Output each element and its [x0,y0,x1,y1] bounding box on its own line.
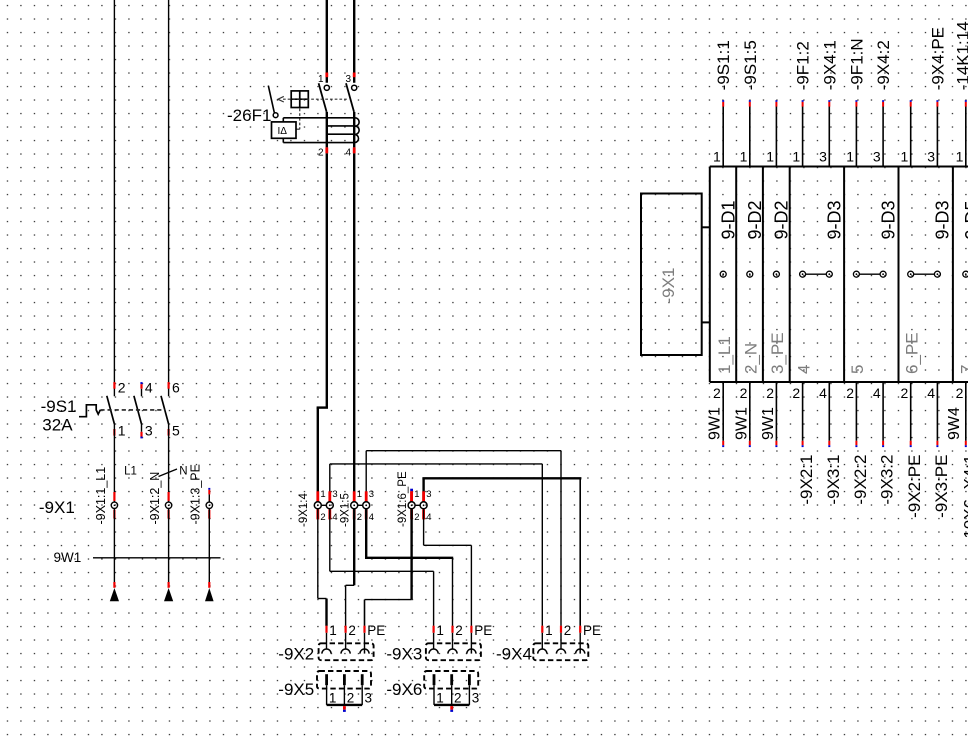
svg-text:N: N [179,465,187,477]
destination label -9X3:1 (rotated) [824,455,843,505]
connection point 3 of -26F1 (red) [353,73,356,78]
svg-text:2_N: 2_N [742,343,761,374]
svg-text:9W1: 9W1 [733,407,750,440]
svg-text:4: 4 [794,365,813,374]
pin numbers 2 4 6 of -9S1 [118,379,180,395]
label -9X1 (terminal strip, left) [39,498,75,517]
bottom connection stubs of -9X1 block [723,382,966,441]
-26F1 test button (crossed square) [291,91,308,108]
svg-text:1: 1 [713,149,721,165]
svg-text:2: 2 [357,512,362,523]
wire: PE stub above terminal -9X1:3 (interruption point) [208,488,210,502]
svg-text:9-D2: 9-D2 [745,200,765,239]
svg-text:4: 4 [426,512,431,523]
wire: -26F1:4 down to -9X1:5 pin 1 [353,153,355,502]
svg-text:3: 3 [819,149,827,165]
wire: -9X1:4 pin 3 to -9X4 pin 1 [330,464,543,626]
interruption point above -9X1:6 pin 1 [410,489,413,502]
wire: -9X1:4 pin 4 to -9X3 pin 1 [330,508,434,626]
svg-text:-9X1:6_PE: -9X1:6_PE [397,471,409,527]
svg-text:3: 3 [873,149,881,165]
wire: -9X1:1 down to cable arrow [113,509,115,582]
wire: -9X1:3 down to cable arrow [208,509,210,582]
-26F1 contact blades [319,83,354,112]
destination label -9F1:2 (rotated) [794,41,813,90]
wire: -9S1:1 down to terminal -9X1:1 [113,424,115,502]
svg-text:2: 2 [347,691,355,706]
svg-text:1_L1: 1_L1 [715,336,734,374]
svg-text:1: 1 [320,489,325,500]
terminal label -9X1:5 (rotated) [340,493,352,527]
top interruption points (blue+red) [723,100,966,106]
destination label -9X3:PE (rotated) [932,455,951,518]
pin labels 1 2 3 of -9X5 [329,691,372,706]
svg-text:2: 2 [454,691,462,706]
svg-text:-9X4:PE: -9X4:PE [928,27,947,90]
svg-text:-9X1: -9X1 [659,268,678,304]
top connection stubs of -9X1 block [723,106,966,166]
destination label -9X2:1 (rotated) [797,455,816,505]
wire: feed from top to -26F1:1 [326,0,328,83]
svg-text:3: 3 [927,149,935,165]
svg-text:-9F1:2: -9F1:2 [794,41,813,90]
svg-text:1: 1 [436,623,444,638]
cable destination arrow 2 [164,582,173,601]
svg-text:PE: PE [583,623,601,638]
connector -9X4 (socket strip) [533,626,588,661]
wire: -9X1:5 pin 2 to -9X2 pin 2 [346,508,355,626]
svg-text:2: 2 [792,385,800,401]
connection point 3 (red+blue, open end) below -9S1 pole 2 [141,424,143,438]
terminal -9X1:4 (double level) [314,489,337,523]
switch -9S1 mechanical link (dashed) [100,409,165,411]
destination label -9X4:2 (rotated) [874,40,893,90]
switch -9S1 blades (3 poles) [107,396,169,424]
cable destination arrow 1 [110,582,119,601]
svg-text:6: 6 [172,379,180,395]
svg-text:2: 2 [320,512,325,523]
svg-text:-9X6: -9X6 [386,680,422,699]
svg-text:5: 5 [848,365,867,374]
pin labels 1 2 PE of -9X3 [436,623,492,638]
terminal -9X1:3 [206,502,212,519]
cable 9W1 marker line [93,557,221,559]
wire: -9X1:6 pin 2 to -9X2 PE pin [365,508,412,626]
cable destination arrow 3 [205,582,214,601]
svg-text:3: 3 [365,691,373,706]
svg-text:2: 2 [956,385,964,401]
wire: -9X1:6 pin 3 to -9X4 PE pin (protective earth) [422,478,581,626]
terminal designations 1_L1 2_N 3_PE 4 5 6_PE (gray, rotated) [715,332,968,374]
svg-text:-9X1:5: -9X1:5 [340,493,352,527]
svg-text:3: 3 [472,691,480,706]
svg-text:9W1: 9W1 [760,407,777,440]
svg-text:9W1: 9W1 [54,550,82,565]
connector -9X5 (pin strip) [317,671,371,712]
connection point 6 (red) on -9S1 pole 3 [168,382,170,389]
connector -9X6 (pin strip) [424,671,478,712]
bottom pin numbers of -9X1 block [713,385,964,401]
wire: feed from top to -26F1:3 [353,0,355,83]
-26F1 residual current trip unit box IDelta [272,122,297,138]
svg-text:4: 4 [873,385,881,401]
svg-text:2: 2 [455,623,463,638]
terminal label -9X1:4 (rotated) [298,493,310,527]
wire: -9X1:5 pin 3 to -9X4 pin 2 [366,451,561,626]
label -9S1 [41,397,77,416]
svg-text:4: 4 [927,385,935,401]
svg-text:2: 2 [318,147,324,158]
pin numbers 1 3 5 of -9S1 [118,422,180,438]
connection point 2 (red) on -9S1 pole 1 [113,382,115,389]
svg-text:-9X1:1_L1: -9X1:1_L1 [94,467,108,525]
label -9X2 [278,645,314,664]
connection point 2 of -26F1 (red) [325,147,328,153]
svg-text:1: 1 [357,489,362,500]
svg-text:-9X3:1: -9X3:1 [824,455,843,505]
svg-text:-9X2: -9X2 [278,645,314,664]
label -9X6 [386,680,422,699]
svg-text:4: 4 [145,379,153,395]
terminal strip -9X1 overview: column dividers [736,167,953,383]
-26F1 dashed link to trip unit [296,109,300,130]
top pin numbers of -9X1 block [713,149,964,165]
destination label -14K1:14 (rotated) [953,21,968,90]
wire: L1 feed from top to -9S1 pole 1 [113,0,115,396]
svg-text:9-D3: 9-D3 [933,200,953,239]
label -9X3 [386,645,422,664]
wire: through -26F1 pole 1 [326,112,328,147]
svg-text:7: 7 [958,365,968,374]
wire: -26F1:2 down with jog to -9X1:4 pin 1 [317,153,328,502]
svg-text:9-D3: 9-D3 [878,200,898,239]
wire name label L1 [124,465,137,477]
svg-text:-9X4:1: -9X4:1 [820,40,839,90]
wire name label N with leader line [159,465,188,477]
svg-text:3_PE: 3_PE [768,332,787,374]
-26F1 actuator pivot circle and lever [268,86,278,118]
cable labels 9W1 9W1 9W1 9W4 (rotated) [707,407,963,440]
connection point 5 (red) below -9S1 pole 3 [168,429,170,436]
svg-text:9W4: 9W4 [946,407,963,440]
svg-text:-14K1:14: -14K1:14 [953,21,968,90]
terminal label -9X1:6_PE (rotated) [397,471,409,527]
svg-text:-9X3:2: -9X3:2 [878,455,897,505]
destination label -9X4:1 (rotated) [820,40,839,90]
svg-text:4: 4 [369,512,374,523]
svg-text:2: 2 [564,623,572,638]
wire: -9X1:2 down to cable arrow [168,509,170,582]
destination label -9S1:1 (rotated) [714,40,733,90]
svg-text:2: 2 [740,385,748,401]
svg-text:1: 1 [414,489,419,500]
label -26F1 [227,106,271,125]
wire: through -26F1 pole 2 [353,112,355,147]
svg-text:4: 4 [332,512,337,523]
destination label -9F1:N (rotated) [847,38,866,90]
svg-text:-9F1:N: -9F1:N [847,38,866,90]
svg-text:9-D2: 9-D2 [772,200,792,239]
svg-text:-9X1: -9X1 [39,498,75,517]
wire: -9X1:6 pin 4 to -9X3 PE pin [424,508,472,626]
terminal -9X1:2 [165,492,171,519]
switch -9S1 pole 2 top stub [141,389,143,397]
-26F1 mechanism dashed line with arrow [278,96,348,102]
pin labels 1 2 PE of -9X2 [329,623,385,638]
connection point 1 of -26F1 (red) [325,73,328,78]
svg-text:2: 2 [414,512,419,523]
-26F1 body rectangle with current transformer arcs [283,118,359,143]
terminal -9X1:1 [111,492,117,519]
pin numbers 1 and 3 of -26F1 [318,74,351,85]
connection point 4 (blue+red) on -9S1 pole 2 [140,382,142,389]
-9X1 device box (gray label) [641,194,710,356]
svg-text:-9S1: -9S1 [41,397,77,416]
svg-text:2: 2 [348,623,356,638]
svg-text:1: 1 [901,149,909,165]
connector -9X3 (socket strip) [426,626,481,661]
svg-text:3: 3 [332,489,337,500]
svg-text:1: 1 [956,149,964,165]
connection point 1 (red) below -9S1 pole 1 [113,429,115,436]
svg-text:-9X1:3_PE: -9X1:3_PE [189,464,203,524]
svg-text:-9S1:5: -9S1:5 [741,40,760,90]
svg-text:-26F1: -26F1 [227,106,271,125]
svg-text:3: 3 [145,422,153,438]
terminal label -9X1:3_PE (rotated) [189,464,203,524]
wire: -9S1:5 down to terminal -9X1:2 [168,424,170,502]
terminal -9X1:6 (double level, PE) [408,489,431,523]
wire: -9X1:4 pin 2 to -9X2 pin 1 [318,508,327,626]
svg-text:2: 2 [901,385,909,401]
svg-text:2: 2 [118,379,126,395]
terminal label -9X1:1_L1 (rotated) [94,467,108,525]
svg-text:2: 2 [713,385,721,401]
svg-text:3: 3 [369,489,374,500]
svg-text:-9X4:2: -9X4:2 [874,40,893,90]
svg-text:9-D1: 9-D1 [718,200,738,239]
svg-text:PE: PE [367,623,385,638]
destination label -9X3:2 (rotated) [878,455,897,505]
svg-text:4: 4 [345,147,351,158]
svg-text:5: 5 [172,422,180,438]
label -9X5 [278,680,314,699]
-26F1 contact circles [324,85,357,90]
destination label -9X2:PE (rotated) [905,455,924,518]
svg-text:-19X6_X4:1: -19X6_X4:1 [960,455,968,545]
bottom interruption points (red+blue) [723,441,966,447]
pin numbers 2 and 4 of -26F1 [318,147,351,158]
wire source labels 9-D1/9-D2/9-D3 [718,200,968,239]
svg-text:-9S1:1: -9S1:1 [714,40,733,90]
svg-text:6_PE: 6_PE [902,332,921,374]
svg-text:4: 4 [819,385,827,401]
svg-text:1: 1 [436,691,444,706]
svg-text:32A: 32A [42,416,73,435]
pin labels 1 2 PE of -9X4 [545,623,601,638]
wire: N feed from top to -9S1 pole 3 [168,0,170,396]
wire: -9X1:5 pin 4 to -9X3 pin 2 [365,508,453,626]
svg-text:-9X3:PE: -9X3:PE [932,455,951,518]
svg-text:1: 1 [329,623,337,638]
destination label -19X6_X4:1 (rotated) [960,455,968,545]
switch -9S1 actuator handle [79,405,100,417]
connection point 4 of -26F1 (red) [353,147,356,153]
svg-text:1: 1 [740,149,748,165]
destination label -9X4:PE (rotated) [928,27,947,90]
svg-text:1: 1 [792,149,800,165]
destination label -9X2:2 (rotated) [851,455,870,505]
svg-text:-9X1:2_N: -9X1:2_N [148,472,162,525]
terminal label -9X1:2_N (rotated) [148,472,162,525]
svg-text:1: 1 [118,422,126,438]
svg-text:1: 1 [766,149,774,165]
svg-text:3: 3 [426,489,431,500]
svg-text:1: 1 [545,623,553,638]
svg-text:-9X5: -9X5 [278,680,314,699]
connector -9X2 (socket strip) [319,626,374,661]
svg-text:PE: PE [474,623,492,638]
svg-text:-9X3: -9X3 [386,645,422,664]
svg-text:2: 2 [846,385,854,401]
svg-text:-9X2:2: -9X2:2 [851,455,870,505]
pin labels 1 2 3 of -9X6 [436,691,479,706]
svg-text:1: 1 [329,691,337,706]
svg-text:9-D5: 9-D5 [962,200,968,239]
value label 32A [42,416,73,435]
svg-text:9-D3: 9-D3 [825,200,845,239]
terminal strip -9X1 overview: outer box [710,167,968,383]
svg-text:1: 1 [846,149,854,165]
label -9X4 [496,645,532,664]
svg-text:-9X1:4: -9X1:4 [298,493,310,527]
terminal circles inside -9X1 block [720,271,968,277]
terminal -9X1:5 (double level) [351,489,374,523]
svg-text:-9X4: -9X4 [496,645,532,664]
svg-text:L1: L1 [124,465,137,477]
svg-text:IΔ: IΔ [278,126,288,137]
svg-text:-9X2:PE: -9X2:PE [905,455,924,518]
destination label -9S1:5 (rotated) [741,40,760,90]
svg-text:9W1: 9W1 [707,407,724,440]
svg-text:2: 2 [766,385,774,401]
cable label 9W1 [54,550,82,565]
svg-text:-9X2:1: -9X2:1 [797,455,816,505]
